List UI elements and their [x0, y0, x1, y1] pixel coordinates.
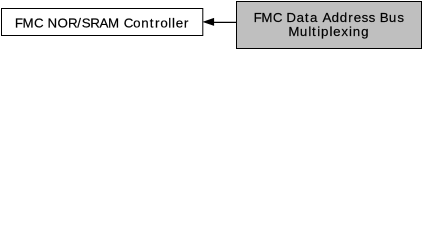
svg-text:FMC NOR/SRAM Controller: FMC NOR/SRAM Controller [15, 15, 189, 30]
svg-text:Multiplexing: Multiplexing [288, 24, 368, 39]
svg-text:FMC Data Address Bus: FMC Data Address Bus [254, 10, 405, 25]
